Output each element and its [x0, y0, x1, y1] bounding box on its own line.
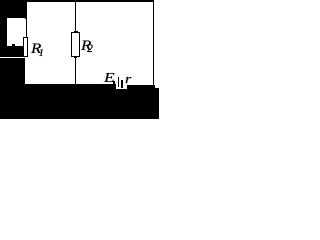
black background column, left edge [0, 17, 7, 47]
label E [104, 72, 115, 86]
black bottom strip segment (left of battery) [0, 84, 116, 119]
node junction nub at R2 top [74, 31, 78, 32]
resistor R2 box [71, 32, 80, 57]
black bottom strip segment (right of battery) [127, 85, 155, 119]
label comma after E [113, 81, 115, 85]
battery E,r : short plate [121, 80, 123, 88]
black background block, top-left [0, 0, 27, 18]
wire middle branch bottom [75, 56, 76, 85]
black tick inside white notch [12, 44, 15, 46]
battery E,r : long plate [118, 77, 119, 87]
node junction nub on left wire [25, 18, 27, 19]
black background block, lower-left upper part [0, 46, 24, 57]
wire middle branch top (to R2) [75, 1, 76, 32]
black bottom strip segment (right corner, lower edge) [155, 88, 159, 119]
wire right vertical [153, 0, 155, 85]
resistor R1 box [23, 37, 28, 57]
black bottom strip segment (under battery, lower edge) [116, 89, 127, 119]
label R2 [81, 39, 91, 54]
wire top horizontal [26, 0, 154, 2]
black background block, lower-left lower part [0, 58, 25, 120]
label r [125, 72, 131, 85]
label R1 [31, 42, 41, 57]
wire left branch (to R1) [26, 17, 27, 37]
node junction nub at R2 bottom [74, 56, 77, 57]
